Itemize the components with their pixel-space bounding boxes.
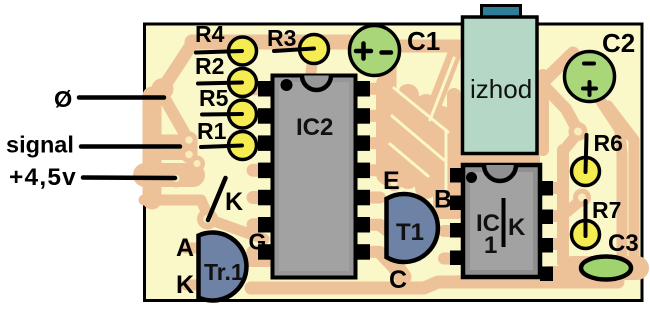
svg-text:signal: signal <box>6 132 74 158</box>
svg-text:R7: R7 <box>592 197 621 223</box>
svg-text:Tr.1: Tr.1 <box>204 259 244 285</box>
svg-text:C3: C3 <box>608 230 639 257</box>
svg-text:R4: R4 <box>195 21 225 47</box>
svg-text:K: K <box>508 214 526 241</box>
svg-text:K: K <box>225 188 243 216</box>
svg-text:C: C <box>389 266 407 294</box>
svg-text:R3: R3 <box>267 25 296 51</box>
svg-text:IC2: IC2 <box>296 114 333 141</box>
svg-text:Ø: Ø <box>54 86 72 112</box>
svg-text:T1: T1 <box>396 219 424 246</box>
svg-text:1: 1 <box>484 232 497 259</box>
svg-text:R5: R5 <box>199 85 229 111</box>
svg-text:izhod: izhod <box>470 74 532 104</box>
svg-text:A: A <box>176 234 194 262</box>
svg-text:R1: R1 <box>197 118 227 144</box>
svg-text:R2: R2 <box>195 53 224 79</box>
svg-text:C1: C1 <box>407 26 440 56</box>
svg-text:+4,5v: +4,5v <box>9 164 77 191</box>
svg-text:E: E <box>383 167 400 195</box>
svg-text:K: K <box>176 271 194 299</box>
svg-text:C2: C2 <box>602 28 635 58</box>
svg-text:G: G <box>249 229 267 255</box>
svg-text:R6: R6 <box>594 130 623 156</box>
svg-text:B: B <box>434 186 452 214</box>
